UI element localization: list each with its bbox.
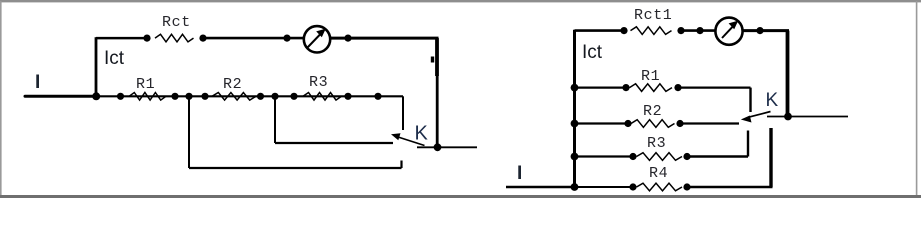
- wire right vertical (left circuit): [435, 38, 439, 147]
- svg-text:R2: R2: [643, 103, 662, 120]
- tick on right vertical: [431, 57, 434, 63]
- node R3 left (right): [629, 153, 636, 160]
- label K (right switch): [766, 90, 779, 111]
- wire R1 contact drop (right): [749, 88, 751, 112]
- node output junction (left): [434, 143, 442, 151]
- node Rct1 left: [620, 27, 627, 34]
- wire R2 row right contact (right): [680, 122, 739, 124]
- node R1 right (left): [171, 93, 178, 100]
- svg-text:R1: R1: [136, 76, 155, 93]
- label R3 (left): [309, 74, 328, 91]
- resistor Rct1: [631, 27, 672, 35]
- svg-text:K: K: [766, 90, 779, 111]
- resistor R2 (left): [212, 93, 256, 101]
- label Ict (right): [582, 42, 603, 63]
- wire Ict branch vertical (left): [95, 37, 98, 96]
- node R4 junction left vertical (right): [571, 183, 579, 191]
- wire R4 contact up (right): [769, 128, 772, 187]
- wire right vertical (right circuit): [786, 31, 790, 117]
- node R4 right (right): [683, 183, 690, 190]
- wire Rct1 to meter (right): [681, 29, 716, 32]
- node Rct left: [143, 35, 150, 42]
- meter M2 (right ammeter): [715, 18, 742, 45]
- svg-text:Ict: Ict: [104, 48, 125, 69]
- label I (left input): [35, 72, 40, 93]
- node meter right (left circuit): [344, 35, 351, 42]
- node meter left (right circuit): [696, 27, 703, 34]
- resistor R4 (right): [637, 183, 683, 191]
- wire left vertical (right circuit): [573, 30, 576, 187]
- node R1 right (right): [674, 84, 681, 91]
- label Rct1: [634, 7, 672, 24]
- svg-text:Rct: Rct: [162, 14, 191, 31]
- node R4 left (right): [629, 183, 636, 190]
- wire tap1 contact tick up (left): [400, 161, 402, 169]
- node junction input/Ict (left): [92, 92, 100, 100]
- resistor R3 (left): [303, 93, 342, 101]
- svg-text:Rct1: Rct1: [634, 7, 672, 24]
- switch K blade (right): [741, 112, 771, 123]
- resistor R1 (right): [630, 84, 673, 92]
- label R2 (right): [643, 103, 662, 120]
- node R3 right (right): [683, 153, 690, 160]
- label I (right input): [517, 163, 522, 184]
- node R1 junction left vertical (right): [571, 84, 579, 92]
- node middle row end (left): [374, 93, 381, 100]
- wire top row right segment: [330, 37, 439, 40]
- wire input I (left circuit): [25, 95, 96, 98]
- node R2 right (right): [676, 120, 683, 127]
- svg-text:R1: R1: [641, 68, 660, 85]
- wire tap1 bottom horizontal (left): [189, 167, 402, 169]
- label Rct: [162, 14, 191, 31]
- wire R1 row left (right): [575, 86, 628, 88]
- node meter right (right circuit): [756, 27, 763, 34]
- resistor Rct: [155, 34, 194, 42]
- node R3 junction left vertical (right): [571, 153, 579, 161]
- label Ict (left): [104, 48, 125, 69]
- svg-text:Ict: Ict: [582, 42, 603, 63]
- wire middle row (left): [96, 95, 403, 97]
- wire R3 row right (right): [687, 155, 748, 157]
- node R1 left (right): [622, 84, 629, 91]
- node tap1 junction (left): [185, 93, 192, 100]
- wire tap2 vertical (left): [274, 96, 276, 143]
- wire output stub (left): [417, 146, 477, 148]
- wire top row right segment (right): [742, 29, 790, 32]
- wire R4 row right (right): [687, 186, 773, 188]
- node R1 left (left): [117, 93, 124, 100]
- wire R3 row left (right): [575, 155, 635, 157]
- node meter left (left circuit): [283, 35, 290, 42]
- wire input I (right circuit): [506, 186, 575, 188]
- svg-text:I: I: [35, 72, 40, 93]
- node R3 left (left): [290, 93, 297, 100]
- resistor R1 (left): [129, 93, 166, 101]
- wire top row left segment: [96, 37, 148, 40]
- switch K blade (left): [391, 133, 425, 145]
- label R1 (left): [136, 76, 155, 93]
- svg-text:R2: R2: [223, 76, 242, 93]
- svg-text:R3: R3: [309, 74, 328, 91]
- resistor R3 (right): [637, 153, 683, 161]
- label R3 (right): [647, 135, 666, 152]
- node output junction (right): [784, 113, 792, 121]
- svg-text:R3: R3: [647, 135, 666, 152]
- node Rct right: [199, 35, 206, 42]
- wire R3 contact drop (left): [402, 96, 404, 130]
- resistor R2 (right): [631, 120, 675, 128]
- node R2 junction left vertical (right): [571, 120, 579, 128]
- node R2 left (right): [624, 120, 631, 127]
- node R2 left (left): [201, 93, 208, 100]
- wire tap1 vertical (left): [188, 96, 190, 168]
- meter M1 (left ammeter): [304, 26, 330, 52]
- wire Rct to meter: [203, 37, 304, 40]
- svg-text:R4: R4: [649, 165, 668, 182]
- wire R3 contact up (right): [747, 131, 749, 157]
- node Rct1 right: [677, 27, 684, 34]
- wire R2 row left (right): [575, 122, 630, 124]
- node tap2 junction (left): [271, 93, 278, 100]
- svg-text:I: I: [517, 163, 522, 184]
- node R3 right (left): [344, 93, 351, 100]
- svg-text:K: K: [415, 123, 429, 145]
- label R4 (right): [649, 165, 668, 182]
- wire R1 row right (right): [678, 86, 751, 88]
- label R1 (right): [641, 68, 660, 85]
- label R2 (left): [223, 76, 242, 93]
- node R2 right (left): [257, 93, 264, 100]
- wire tap2 horizontal (left): [275, 142, 393, 144]
- wire output (right): [767, 116, 848, 118]
- wire top row left segment (right): [575, 29, 626, 32]
- label K (left switch): [415, 123, 429, 145]
- wire R4 row left (right): [575, 186, 635, 188]
